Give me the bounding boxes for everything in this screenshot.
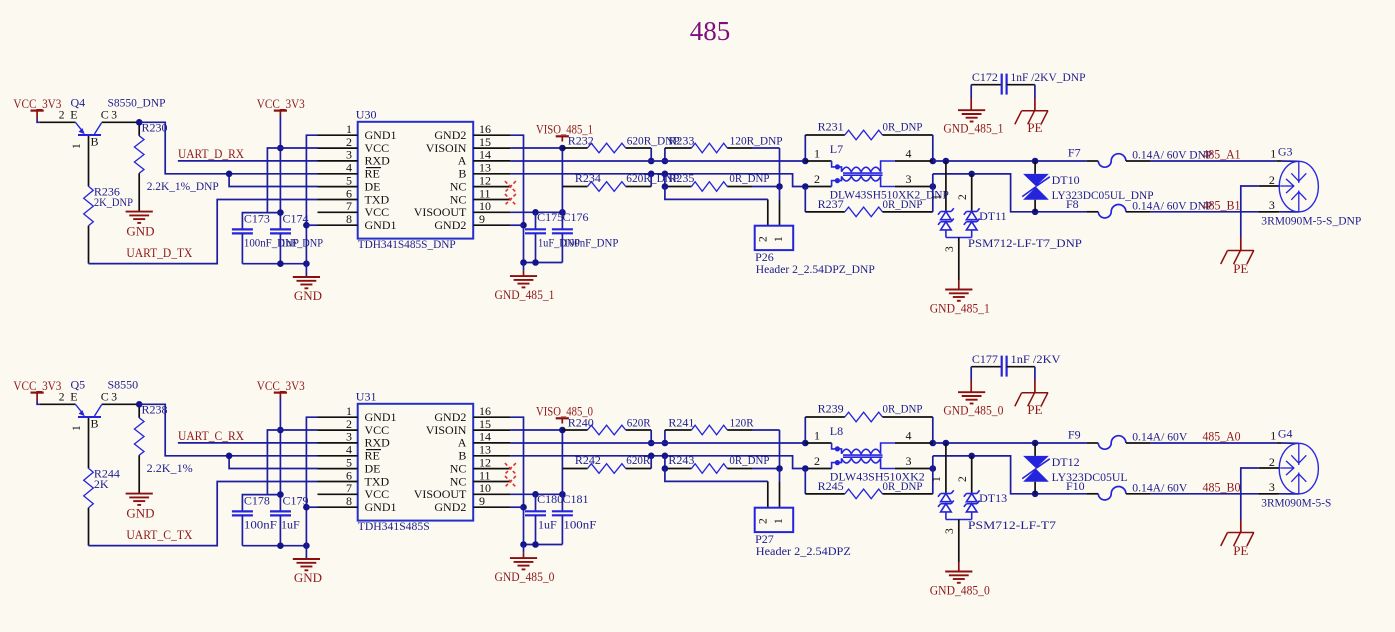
svg-text:485_A1: 485_A1 — [1203, 146, 1241, 161]
junction — [303, 504, 310, 511]
junction — [648, 158, 655, 165]
svg-text:PE: PE — [1233, 261, 1248, 276]
pin 14 A — [473, 442, 510, 444]
junction — [532, 491, 539, 498]
svg-text:5: 5 — [346, 173, 352, 187]
pin 7 VCC — [318, 211, 358, 213]
wire net B to fuse — [933, 456, 1087, 494]
svg-text:R239: R239 — [818, 402, 844, 416]
svg-text:2.2K_1%_DNP: 2.2K_1%_DNP — [147, 179, 219, 193]
svg-text:NC: NC — [450, 179, 467, 193]
wire gnd rail 2 — [524, 544, 563, 546]
junction — [1032, 158, 1039, 165]
pin 16 GND2 — [473, 416, 510, 418]
pin 13 B — [473, 455, 510, 457]
svg-text:GND_485_1: GND_485_1 — [943, 120, 1003, 135]
junction — [559, 209, 566, 216]
junction — [559, 491, 566, 498]
svg-text:L7: L7 — [830, 142, 843, 156]
svg-text:GND2: GND2 — [434, 500, 466, 514]
svg-text:GND_485_0: GND_485_0 — [943, 402, 1003, 417]
wire net B — [510, 456, 805, 469]
no-connect X pin11 — [505, 476, 516, 487]
svg-text:TDH341S485S_DNP: TDH341S485S_DNP — [358, 237, 456, 251]
svg-text:485_B1: 485_B1 — [1203, 197, 1241, 212]
capacitor C179 — [270, 510, 291, 512]
svg-text:7: 7 — [346, 199, 352, 213]
svg-text:16: 16 — [479, 122, 491, 136]
capacitor C177 (1nF /2KV) — [971, 366, 1002, 368]
fuse F9 — [1086, 442, 1098, 444]
svg-text:16: 16 — [479, 404, 491, 418]
svg-text:DE: DE — [365, 461, 381, 475]
junction — [303, 542, 310, 549]
junction — [802, 465, 809, 472]
junction — [648, 453, 655, 460]
svg-text:DT13: DT13 — [979, 491, 1007, 505]
junction — [930, 183, 937, 190]
svg-text:UART_D_TX: UART_D_TX — [126, 245, 193, 260]
ground GND_485_1 — [958, 109, 985, 111]
svg-text:Header 2_2.54DPZ_DNP: Header 2_2.54DPZ_DNP — [756, 262, 875, 276]
svg-text:1: 1 — [346, 122, 352, 136]
wire to header pin2 — [665, 469, 768, 482]
wire gnd rail — [242, 263, 306, 265]
svg-text:LY323DC05UL: LY323DC05UL — [1052, 470, 1128, 484]
junction — [662, 158, 669, 165]
wire pin1 GND1 — [306, 135, 317, 277]
svg-text:1uF_DNP: 1uF_DNP — [281, 236, 323, 250]
wire to header pin2 — [665, 187, 768, 200]
svg-text:R242: R242 — [575, 453, 601, 467]
capacitor C175 — [535, 212, 537, 229]
polarity dot — [835, 446, 840, 451]
pin 16 GND2 — [473, 134, 510, 136]
capacitor C178 — [232, 510, 253, 512]
ground PE — [1022, 110, 1049, 112]
resistor R234 — [650, 174, 652, 187]
svg-text:R234: R234 — [575, 171, 601, 185]
svg-text:1: 1 — [71, 143, 83, 149]
svg-text:3: 3 — [944, 246, 956, 252]
svg-text:0R_DNP: 0R_DNP — [883, 197, 923, 211]
svg-text:2: 2 — [59, 110, 65, 122]
svg-text:A: A — [458, 436, 467, 450]
wire to header pin1 — [779, 469, 781, 482]
svg-text:1nF /2KV: 1nF /2KV — [1011, 352, 1061, 366]
svg-text:0R_DNP: 0R_DNP — [883, 479, 923, 493]
svg-text:120R: 120R — [730, 416, 754, 430]
wire pin2 to PE — [1241, 468, 1259, 520]
wire — [37, 119, 40, 122]
junction — [662, 183, 669, 190]
resistor R237 — [804, 187, 806, 212]
resistor R236 — [84, 186, 94, 225]
svg-text:485: 485 — [690, 16, 731, 46]
wire to C173 — [242, 495, 267, 512]
junction — [277, 542, 284, 549]
junction — [1032, 440, 1039, 447]
svg-text:VCC_3V3: VCC_3V3 — [257, 96, 305, 111]
junction — [136, 119, 143, 126]
svg-text:DT11: DT11 — [979, 209, 1007, 223]
svg-text:VISOOUT: VISOOUT — [414, 205, 467, 219]
svg-text:485_B0: 485_B0 — [1203, 479, 1241, 494]
pin 11 NC — [473, 481, 510, 483]
svg-text:3: 3 — [111, 392, 117, 404]
wire pin8 GND1 — [306, 506, 317, 508]
pin 6 TXD — [318, 481, 358, 483]
wire net B to fuse — [933, 174, 1087, 212]
wire gnd stub — [523, 263, 525, 271]
pin 6 TXD — [318, 199, 358, 201]
wire to C173 — [242, 213, 267, 230]
pin 9 GND2 — [473, 506, 510, 508]
svg-text:GND_485_1: GND_485_1 — [495, 287, 555, 302]
polarity dot — [835, 164, 840, 169]
junction — [559, 427, 566, 434]
ground GND_485_0 — [958, 391, 985, 393]
wire VISOOUT — [510, 211, 562, 213]
junction — [930, 158, 937, 165]
svg-text:2: 2 — [758, 236, 770, 242]
wire GND2 — [510, 135, 523, 262]
svg-text:R237: R237 — [818, 197, 844, 211]
junction — [648, 171, 655, 178]
junction — [802, 158, 809, 165]
svg-text:S8550: S8550 — [108, 378, 139, 392]
svg-text:C173: C173 — [244, 212, 270, 226]
svg-text:7: 7 — [346, 481, 352, 495]
svg-text:620R: 620R — [626, 453, 650, 467]
ground GND_485_0 — [510, 557, 537, 559]
pin 11 NC — [473, 199, 510, 201]
svg-text:8: 8 — [346, 494, 352, 508]
wire pin1 GND1 — [306, 417, 317, 559]
junction — [776, 183, 783, 190]
junction — [226, 453, 233, 460]
svg-text:L8: L8 — [830, 424, 843, 438]
tvs DT13 (PSM712-LF-T7) — [945, 443, 947, 494]
wire pin2 to PE — [1241, 186, 1259, 238]
junction — [520, 541, 527, 548]
svg-text:1: 1 — [346, 404, 352, 418]
svg-text:R240: R240 — [568, 416, 594, 430]
capacitor C176 — [561, 148, 563, 229]
junction — [277, 209, 284, 216]
wire 485 B — [1151, 493, 1277, 495]
pin 5 DE — [318, 186, 358, 188]
svg-text:2: 2 — [1269, 455, 1275, 469]
ground GND — [293, 558, 320, 560]
svg-text:GND: GND — [126, 506, 154, 521]
capacitor C180 — [535, 494, 537, 511]
pin 8 GND1 — [318, 224, 358, 226]
svg-text:3: 3 — [944, 528, 956, 534]
junction — [136, 401, 143, 408]
wire pin8 GND1 — [306, 224, 317, 226]
wire net B — [510, 174, 805, 187]
svg-text:1: 1 — [1270, 146, 1276, 160]
resistor R242 — [650, 456, 652, 469]
wire VCC to C174 — [279, 398, 281, 512]
wire VISOIN — [510, 147, 562, 149]
svg-text:12: 12 — [479, 173, 491, 187]
pin 2 VCC — [318, 147, 358, 149]
svg-text:R245: R245 — [818, 479, 844, 493]
svg-text:R241: R241 — [668, 416, 694, 430]
svg-text:DT12: DT12 — [1052, 455, 1080, 469]
capacitor C173 — [232, 228, 253, 230]
svg-text:PE: PE — [1027, 402, 1042, 417]
svg-text:C180: C180 — [537, 492, 563, 506]
svg-text:GND1: GND1 — [365, 218, 397, 232]
wire GND2 — [510, 417, 523, 544]
svg-text:Q5: Q5 — [71, 378, 86, 392]
pin 10 VISOOUT — [473, 493, 510, 495]
svg-text:14: 14 — [479, 148, 491, 162]
connector G4 (3RM090M-5-S) — [1277, 442, 1281, 444]
pin 2 VCC — [318, 429, 358, 431]
svg-text:F9: F9 — [1068, 428, 1081, 442]
no-connect X pin12 — [505, 463, 516, 474]
svg-text:GND: GND — [126, 224, 154, 239]
svg-text:GND: GND — [294, 570, 322, 585]
junction — [303, 260, 310, 267]
svg-text:2: 2 — [957, 194, 969, 200]
svg-text:C181: C181 — [563, 492, 589, 506]
resistor R243 — [664, 456, 666, 469]
svg-text:F10: F10 — [1066, 479, 1085, 493]
pin 1 GND1 — [318, 416, 358, 418]
junction — [802, 183, 809, 190]
svg-text:C177: C177 — [972, 352, 998, 366]
junction — [662, 440, 669, 447]
wire pin2 VCC — [267, 430, 317, 495]
ic U30 (TDH341S485S_DNP) — [358, 122, 474, 239]
tvs DT10 (LY323DC05UL_DNP) — [1034, 161, 1036, 174]
svg-text:1: 1 — [71, 425, 83, 431]
svg-text:2: 2 — [1269, 173, 1275, 187]
svg-text:C: C — [101, 108, 109, 122]
svg-text:0.14A/ 60V: 0.14A/ 60V — [1132, 480, 1187, 494]
svg-text:3: 3 — [1269, 480, 1275, 494]
junction — [277, 145, 284, 152]
wire gnd rail 2 — [524, 262, 563, 264]
pin 4 RE — [318, 455, 358, 457]
junction — [520, 222, 527, 229]
svg-text:F7: F7 — [1068, 146, 1081, 160]
svg-text:3: 3 — [906, 454, 912, 468]
svg-text:1uF: 1uF — [538, 517, 557, 531]
svg-text:VISOOUT: VISOOUT — [414, 487, 467, 501]
svg-text:B: B — [91, 416, 99, 430]
ground PE — [1228, 532, 1255, 534]
wire VISOOUT — [510, 493, 562, 495]
capacitor C174 — [270, 228, 291, 230]
svg-text:GND_485_0: GND_485_0 — [930, 583, 990, 598]
wire VCC to C174 — [279, 116, 281, 230]
pin 10 VISOOUT — [473, 211, 510, 213]
svg-text:10: 10 — [479, 481, 491, 495]
ground GND_485_0 — [945, 571, 972, 573]
svg-text:PE: PE — [1027, 120, 1042, 135]
junction — [532, 209, 539, 216]
connector P27 (Header 2_2.54DPZ) — [755, 508, 794, 532]
svg-text:R232: R232 — [568, 134, 594, 148]
junction — [226, 171, 233, 178]
svg-text:2: 2 — [59, 392, 65, 404]
resistor R230 — [138, 122, 140, 136]
ground PE — [1022, 392, 1049, 394]
wire net UART_C_TX — [89, 482, 318, 546]
svg-text:3RM090M-5-S: 3RM090M-5-S — [1261, 495, 1331, 509]
junction — [802, 440, 809, 447]
tvs DT12 (LY323DC05UL) — [1034, 443, 1036, 456]
junction — [930, 465, 937, 472]
svg-text:C172: C172 — [972, 70, 998, 84]
svg-text:B: B — [91, 134, 99, 148]
resistor R233 — [664, 148, 666, 161]
svg-text:3: 3 — [346, 430, 352, 444]
svg-text:C176: C176 — [563, 210, 589, 224]
svg-text:3RM090M-5-S_DNP: 3RM090M-5-S_DNP — [1261, 213, 1361, 227]
junction — [277, 427, 284, 434]
inductor L7 (DLW43SH510XK2_DNP) — [805, 160, 831, 162]
transistor Q5 (S8550) — [40, 403, 76, 405]
svg-text:3: 3 — [346, 148, 352, 162]
junction — [1032, 491, 1039, 498]
svg-text:VCC_3V3: VCC_3V3 — [257, 378, 305, 393]
svg-text:GND2: GND2 — [434, 410, 466, 424]
svg-text:120R_DNP: 120R_DNP — [730, 134, 783, 148]
inductor L8 (DLW43SH510XK2) — [805, 442, 831, 444]
pin 13 B — [473, 173, 510, 175]
tvs DT11 (PSM712-LF-T7_DNP) — [945, 161, 947, 212]
svg-text:5: 5 — [346, 455, 352, 469]
svg-text:C178: C178 — [244, 494, 270, 508]
pin 12 NC — [473, 468, 510, 470]
svg-text:1nF /2KV_DNP: 1nF /2KV_DNP — [1011, 70, 1086, 84]
wire pin9 GND2 — [510, 224, 523, 226]
capacitor C172 (1nF /2KV_DNP) — [971, 84, 1002, 86]
wire net UART_D_RX — [178, 160, 318, 162]
resistor R232 — [562, 147, 587, 149]
svg-text:VCC: VCC — [365, 205, 390, 219]
junction — [943, 440, 950, 447]
svg-text:R231: R231 — [818, 120, 844, 134]
svg-text:UART_C_RX: UART_C_RX — [178, 428, 245, 443]
wire net UART_D_TX — [89, 200, 318, 264]
pin 1 GND1 — [318, 134, 358, 136]
svg-text:1: 1 — [814, 429, 820, 443]
svg-text:2K_DNP: 2K_DNP — [94, 195, 133, 209]
junction — [277, 260, 284, 267]
svg-text:2.2K_1%: 2.2K_1% — [147, 461, 193, 475]
ic U31 (TDH341S485S) — [358, 404, 474, 521]
svg-text:GND1: GND1 — [365, 128, 397, 142]
junction — [968, 453, 975, 460]
svg-text:8: 8 — [346, 212, 352, 226]
svg-text:GND_485_1: GND_485_1 — [930, 301, 990, 316]
svg-text:0.14A/ 60V: 0.14A/ 60V — [1132, 429, 1187, 443]
svg-text:14: 14 — [479, 430, 491, 444]
svg-text:R233: R233 — [668, 134, 694, 148]
svg-text:2: 2 — [957, 476, 969, 482]
resistor R240 — [562, 429, 587, 431]
wire to header pin1 — [779, 187, 781, 200]
junction — [532, 259, 539, 266]
wire RE/DE — [139, 404, 317, 456]
resistor R235 — [664, 174, 666, 187]
ground GND_485_1 — [945, 289, 972, 291]
svg-text:2: 2 — [758, 518, 770, 524]
svg-text:GND_485_0: GND_485_0 — [495, 569, 555, 584]
svg-text:VCC_3V3: VCC_3V3 — [13, 378, 61, 393]
svg-text:U31: U31 — [356, 390, 377, 404]
svg-text:2K: 2K — [94, 477, 109, 491]
pin 7 VCC — [318, 493, 358, 495]
svg-text:Q4: Q4 — [71, 96, 86, 110]
svg-text:GND2: GND2 — [434, 218, 466, 232]
svg-text:VCC_3V3: VCC_3V3 — [13, 96, 61, 111]
svg-text:1: 1 — [773, 518, 785, 524]
junction — [277, 491, 284, 498]
svg-text:9: 9 — [479, 494, 485, 508]
svg-text:PSM712-LF-T7: PSM712-LF-T7 — [968, 518, 1056, 532]
svg-text:GND: GND — [294, 288, 322, 303]
pin 12 NC — [473, 186, 510, 188]
svg-text:GND1: GND1 — [365, 500, 397, 514]
fuse F8 — [1086, 211, 1098, 213]
svg-text:UART_C_TX: UART_C_TX — [126, 527, 193, 542]
svg-text:U30: U30 — [356, 108, 377, 122]
svg-text:1uF: 1uF — [281, 518, 300, 532]
polarity dot — [835, 460, 840, 465]
wire 485 B — [1151, 211, 1277, 213]
svg-text:3: 3 — [1269, 198, 1275, 212]
svg-text:Header 2_2.54DPZ: Header 2_2.54DPZ — [756, 544, 851, 558]
pin 8 GND1 — [318, 506, 358, 508]
svg-text:A: A — [458, 154, 467, 168]
junction — [532, 541, 539, 548]
junction — [662, 465, 669, 472]
svg-text:1: 1 — [1270, 428, 1276, 442]
pin 3 RXD — [318, 442, 358, 444]
wire pin9 GND2 — [510, 506, 523, 508]
ground PE — [1228, 250, 1255, 252]
capacitor C181 — [561, 430, 563, 511]
svg-text:1: 1 — [773, 236, 785, 242]
wire RE/DE — [139, 122, 317, 174]
svg-text:F8: F8 — [1066, 197, 1079, 211]
junction — [1032, 209, 1039, 216]
svg-text:GND1: GND1 — [365, 410, 397, 424]
svg-text:C: C — [101, 390, 109, 404]
svg-text:0R_DNP: 0R_DNP — [729, 453, 769, 467]
wire 485 A — [1151, 160, 1277, 162]
junction — [520, 504, 527, 511]
wire net UART_C_RX — [178, 442, 318, 444]
svg-text:0.14A/ 60V DNP: 0.14A/ 60V DNP — [1132, 198, 1212, 212]
pin 14 A — [473, 160, 510, 162]
pin 4 RE — [318, 173, 358, 175]
svg-text:0R_DNP: 0R_DNP — [883, 402, 923, 416]
no-connect X pin11 — [505, 194, 516, 205]
wire pin2 VCC — [267, 148, 317, 213]
wire 485 A — [1151, 442, 1277, 444]
svg-text:4: 4 — [906, 429, 912, 443]
